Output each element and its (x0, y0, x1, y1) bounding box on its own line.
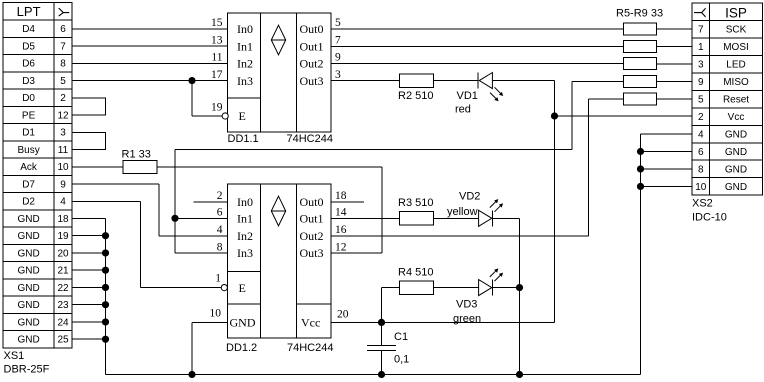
svg-text:0,1: 0,1 (394, 354, 409, 366)
svg-text:9: 9 (60, 179, 66, 190)
connector XS2 header pin symbol (694, 8, 706, 17)
wire R4 to VD3 (434, 287, 479, 289)
svg-text:9: 9 (698, 77, 704, 88)
svg-text:GND: GND (17, 283, 39, 294)
DD1.2 output Out2 pin 16 (300, 224, 347, 243)
svg-text:5: 5 (335, 17, 341, 29)
svg-text:GND: GND (17, 317, 39, 328)
XS1 row D0 pin 2 (22, 93, 66, 104)
DD1.1 output Out1 pin 7 (300, 34, 342, 53)
XS2 row SCK pin 7 (698, 24, 747, 35)
LED VD3 green (479, 268, 503, 295)
DD1.1 driver diamond symbol (271, 25, 285, 55)
XS1 row GND pin 20 (17, 248, 69, 259)
label VD2 (459, 191, 480, 203)
junction D3/E1 node (188, 77, 195, 84)
op-amp buffer DD1.2 74HC244 box (228, 184, 332, 338)
wire bracket D1 to Busy (72, 132, 106, 149)
svg-text:In2: In2 (237, 229, 253, 243)
wire R8 to XS2 (657, 81, 692, 83)
svg-text:10: 10 (695, 182, 707, 193)
ground bus from XS1 GND pins (72, 218, 106, 374)
junction Vcc/C1/R4 node (378, 319, 385, 326)
svg-text:VD3: VD3 (456, 299, 477, 311)
wire D6 to DD1.1 In2 (72, 62, 228, 64)
wire DD1.2 Out1 to R3 (331, 217, 400, 219)
svg-text:4: 4 (60, 197, 66, 208)
svg-text:7: 7 (335, 34, 341, 46)
wire VD1 to Vcc node (492, 81, 554, 116)
label VD3 (456, 299, 477, 311)
wire D4 to DD1.1 In0 (72, 28, 228, 30)
svg-text:10: 10 (210, 308, 222, 320)
svg-text:22: 22 (57, 283, 69, 294)
svg-text:3: 3 (60, 128, 66, 139)
svg-text:R1 33: R1 33 (122, 149, 151, 161)
label C1 (394, 331, 408, 343)
label 0,1 (394, 354, 409, 366)
label yellow (447, 206, 478, 218)
XS1 row GND pin 22 (17, 283, 69, 294)
resistor R8 (623, 76, 656, 88)
label R2 510 (398, 90, 433, 102)
DD1.1 input In3 pin 17 (211, 69, 253, 88)
junction MISO/In1 node (171, 215, 178, 222)
wire R2 to VD1 (434, 80, 479, 82)
svg-text:GND: GND (17, 231, 39, 242)
svg-text:XS2: XS2 (692, 198, 713, 210)
svg-text:Out1: Out1 (300, 212, 324, 226)
wire R9 to XS2 (657, 98, 692, 100)
wire R7 to XS2 (657, 63, 692, 65)
svg-text:SCK: SCK (726, 24, 747, 35)
svg-text:R2 510: R2 510 (398, 90, 433, 102)
wire VD3 to cathode bus (492, 287, 519, 289)
junction XS2 GND pin 10 node (637, 183, 644, 190)
svg-text:DD1.2: DD1.2 (226, 342, 257, 354)
DD1.2 input In2 pin 4 (217, 224, 253, 243)
svg-text:Ack: Ack (20, 162, 38, 173)
DD1.2 enable E pin 1 with inverter bubble (215, 273, 246, 295)
XS2 row GND pin 8 (698, 164, 747, 175)
label 74HC244 upper (287, 133, 333, 145)
wire R1 to DD1.2 Out3 (157, 167, 382, 253)
svg-text:C1: C1 (394, 331, 408, 343)
svg-text:7: 7 (60, 41, 66, 52)
svg-text:6: 6 (60, 24, 66, 35)
svg-text:3: 3 (335, 69, 341, 81)
svg-text:5: 5 (698, 94, 704, 105)
svg-text:GND: GND (17, 266, 39, 277)
wire DD1.1 Out1 to R6 MOSI (331, 45, 623, 47)
svg-text:In1: In1 (237, 212, 253, 226)
DD1.2 input In3 pin 8 (217, 241, 253, 260)
svg-text:D4: D4 (22, 24, 35, 35)
svg-text:17: 17 (211, 69, 223, 81)
XS2 row GND pin 6 (698, 147, 747, 158)
wire R3 to VD2 (434, 217, 479, 219)
svg-text:2: 2 (698, 112, 704, 123)
wire Ack to R1 (72, 166, 123, 168)
svg-text:1: 1 (215, 273, 221, 285)
svg-text:25: 25 (57, 335, 69, 346)
svg-text:16: 16 (335, 224, 347, 236)
svg-text:Reset: Reset (723, 94, 749, 105)
resistor R6 (623, 40, 656, 52)
DD1.2 input In0 pin 2 (217, 190, 253, 209)
svg-text:15: 15 (211, 17, 223, 29)
wires ground bus to XS2 GND pins (641, 134, 693, 186)
svg-text:LED: LED (726, 59, 745, 70)
XS1 row D3 pin 5 (22, 76, 66, 87)
svg-text:D3: D3 (22, 76, 35, 87)
svg-text:13: 13 (211, 34, 223, 46)
XS1 row GND pin 23 (17, 300, 69, 311)
junction GND pin 19 node (102, 232, 109, 239)
svg-text:3: 3 (698, 59, 704, 70)
junction XS2 GND pin 8 node (637, 165, 644, 172)
svg-text:8: 8 (60, 59, 66, 70)
svg-text:19: 19 (211, 102, 223, 114)
junction GND pin 25 node (102, 336, 109, 343)
label DBR-25F (4, 364, 50, 376)
DD1.2 output Out3 pin 12 (300, 241, 347, 260)
connector XS2 header label ISP (725, 5, 747, 20)
label R4 510 (398, 267, 433, 279)
junction GND pin 21 node (102, 267, 109, 274)
DD1.1 output Out3 pin 3 (300, 69, 342, 88)
svg-text:Out0: Out0 (300, 22, 324, 36)
svg-text:LPT: LPT (17, 4, 41, 19)
svg-text:20: 20 (337, 309, 349, 321)
wire R9 to DD1.2 Out2 (331, 99, 623, 236)
svg-text:8: 8 (217, 241, 223, 253)
svg-text:20: 20 (57, 248, 69, 259)
svg-text:21: 21 (57, 266, 69, 277)
junction LED cathode / bus node (516, 371, 523, 378)
junction VD1/Vcc node (551, 112, 558, 119)
svg-text:GND: GND (230, 316, 256, 330)
svg-text:E: E (239, 109, 246, 123)
svg-text:8: 8 (698, 164, 704, 175)
label DD1.2 (226, 342, 257, 354)
svg-text:D5: D5 (22, 41, 35, 52)
resistor R2 (400, 74, 434, 88)
svg-text:In3: In3 (237, 246, 253, 260)
DD1.1 input In2 pin 11 (211, 52, 253, 71)
svg-text:11: 11 (58, 145, 69, 156)
wire VD2 to cathode bus (492, 218, 519, 374)
connector XS2 ISP table frame (692, 3, 762, 195)
svg-text:19: 19 (57, 231, 69, 242)
resistor R9 (623, 93, 656, 105)
label R1 33 (122, 149, 151, 161)
XS2 row LED pin 3 (698, 59, 746, 70)
svg-text:R5-R9 33: R5-R9 33 (616, 8, 663, 20)
junction GND pin 24 node (102, 318, 109, 325)
svg-text:10: 10 (57, 162, 69, 173)
svg-text:1: 1 (698, 42, 704, 53)
connector XS1 header label LPT (17, 4, 41, 19)
ground bottom bus wire (106, 134, 641, 374)
svg-text:GND: GND (17, 335, 39, 346)
label DD1.1 (228, 133, 259, 145)
label red (455, 104, 471, 116)
wire MISO from R8 to DD1.2 In1 and In3 (175, 82, 623, 253)
resistor R4 (400, 281, 434, 295)
svg-text:18: 18 (335, 190, 347, 202)
XS1 row D6 pin 8 (22, 59, 66, 70)
svg-text:14: 14 (335, 207, 347, 219)
XS2 row MISO pin 9 (698, 77, 749, 88)
svg-text:ISP: ISP (725, 5, 747, 20)
wire DD1.1 Out2 to R7 LED (331, 63, 623, 65)
svg-text:In3: In3 (237, 74, 253, 88)
wire bracket D0 to PE (72, 98, 106, 115)
label R3 510 (398, 197, 433, 209)
resistor R5 (623, 23, 656, 35)
svg-text:In1: In1 (237, 39, 253, 53)
svg-text:GND: GND (725, 182, 747, 193)
LED VD2 yellow (479, 199, 503, 226)
svg-text:5: 5 (60, 76, 66, 87)
label VD1 (457, 90, 478, 102)
svg-text:4: 4 (217, 224, 223, 236)
junction DD1.2 GND / bus node (188, 371, 195, 378)
svg-text:In2: In2 (237, 57, 253, 71)
svg-text:18: 18 (57, 214, 69, 225)
DD1.2 output Out1 pin 14 (300, 207, 347, 226)
resistor R7 (623, 58, 656, 70)
svg-text:Out1: Out1 (300, 39, 324, 53)
XS1 row D1 pin 3 (22, 128, 66, 139)
svg-text:DD1.1: DD1.1 (228, 133, 259, 145)
DD1.2 output Out0 pin 18 (300, 190, 347, 209)
DD1.2 input In1 pin 6 (217, 207, 253, 226)
wire R6 to XS2 (657, 46, 692, 48)
svg-text:Vcc: Vcc (728, 112, 745, 123)
svg-text:GND: GND (725, 129, 747, 140)
wire DD1.2 Out0 stub (331, 201, 364, 203)
XS2 row GND pin 10 (695, 182, 747, 193)
wire DD1.2 GND pin 10 to bus (192, 322, 228, 374)
wire R5 to XS2 (657, 28, 692, 30)
label R5-R9 33 (616, 8, 663, 20)
svg-text:IDC-10: IDC-10 (692, 212, 727, 224)
wire DD1.1 E pin 19 to D3 node (192, 81, 222, 116)
svg-text:yellow: yellow (447, 206, 478, 218)
junction C1 / bus node (378, 371, 385, 378)
XS1 row D2 pin 4 (22, 197, 66, 208)
XS2 row MOSI pin 1 (698, 42, 749, 53)
XS1 row GND pin 21 (17, 266, 69, 277)
svg-text:D7: D7 (22, 179, 35, 190)
label XS2 (692, 198, 713, 210)
svg-text:11: 11 (211, 52, 222, 64)
resistor R1 (123, 161, 157, 174)
svg-text:Out3: Out3 (300, 246, 324, 260)
svg-text:GND: GND (17, 214, 39, 225)
svg-text:VD1: VD1 (457, 90, 478, 102)
svg-text:MOSI: MOSI (723, 42, 749, 53)
svg-text:24: 24 (57, 317, 69, 328)
svg-text:XS1: XS1 (4, 350, 25, 362)
XS1 row GND pin 25 (17, 335, 69, 346)
XS1 row Ack pin 10 (20, 162, 69, 173)
junction GND pin 23 node (102, 301, 109, 308)
svg-text:4: 4 (698, 129, 704, 140)
svg-text:VD2: VD2 (459, 191, 480, 203)
svg-text:In0: In0 (237, 195, 253, 209)
svg-text:6: 6 (698, 147, 704, 158)
svg-text:2: 2 (60, 93, 66, 104)
svg-text:Out2: Out2 (300, 229, 324, 243)
DD1.1 input In1 pin 13 (211, 34, 253, 53)
wire Vcc node to XS2 Vcc pin 2 (555, 115, 693, 117)
svg-text:D0: D0 (22, 93, 35, 104)
svg-text:23: 23 (57, 300, 69, 311)
svg-text:PE: PE (22, 110, 36, 121)
XS1 row GND pin 19 (17, 231, 69, 242)
wire DD1.1 Out0 to R5 SCK (331, 28, 623, 30)
XS1 row D7 pin 9 (22, 179, 66, 190)
svg-text:D2: D2 (22, 197, 35, 208)
wire D7 to DD1.2 In2 (72, 184, 228, 236)
wire D2 to DD1.2 E pin 1 (72, 201, 221, 287)
svg-text:D6: D6 (22, 59, 35, 70)
wire DD1.1 Out3 to R2 (331, 80, 400, 82)
svg-text:green: green (453, 313, 481, 325)
wire D3 to DD1.1 In3 (72, 80, 228, 82)
XS1 row Busy pin 11 (17, 145, 68, 156)
label green (453, 313, 481, 325)
svg-text:R3 510: R3 510 (398, 197, 433, 209)
svg-text:In0: In0 (237, 22, 253, 36)
svg-text:MISO: MISO (723, 77, 749, 88)
XS2 row Vcc pin 2 (698, 112, 744, 123)
svg-text:Busy: Busy (17, 145, 39, 156)
XS1 row GND pin 24 (17, 317, 69, 328)
connector XS1 LPT table frame (3, 3, 72, 348)
svg-text:D1: D1 (22, 128, 35, 139)
XS2 row GND pin 4 (698, 129, 747, 140)
svg-text:Out3: Out3 (300, 74, 324, 88)
XS1 row D4 pin 6 (22, 24, 66, 35)
svg-text:9: 9 (335, 52, 341, 64)
svg-text:Vcc: Vcc (301, 316, 320, 330)
DD1.2 driver diamond symbol (271, 196, 285, 226)
DD1.1 input In0 pin 15 (211, 17, 253, 36)
svg-text:12: 12 (57, 110, 69, 121)
label IDC-10 (692, 212, 727, 224)
LED VD1 red (478, 73, 503, 102)
svg-text:red: red (455, 104, 471, 116)
svg-text:Out0: Out0 (300, 195, 324, 209)
svg-text:GND: GND (17, 248, 39, 259)
XS1 row D5 pin 7 (22, 41, 66, 52)
svg-text:DBR-25F: DBR-25F (4, 364, 50, 376)
junction GND pin 22 node (102, 284, 109, 291)
DD1.1 enable E pin 19 with inverter bubble (211, 102, 246, 124)
wire Vcc node down to DD1.2 Vcc pin 20 (331, 116, 555, 322)
wire DD1.2 In0 stub (194, 201, 228, 203)
resistor R3 (400, 212, 434, 226)
svg-text:7: 7 (698, 24, 704, 35)
DD1.1 output Out0 pin 5 (300, 17, 342, 36)
svg-text:GND: GND (725, 147, 747, 158)
label XS1 (4, 350, 25, 362)
connector XS1 header pin symbol (59, 8, 69, 16)
junction GND pin 20 node (102, 249, 109, 256)
svg-text:GND: GND (17, 300, 39, 311)
svg-text:12: 12 (335, 241, 347, 253)
svg-text:2: 2 (217, 190, 223, 202)
label 74HC244 lower (287, 342, 333, 354)
DD1.1 output Out2 pin 9 (300, 52, 342, 71)
op-amp buffer DD1.1 74HC244 box (228, 13, 332, 132)
svg-text:E: E (239, 281, 246, 295)
junction XS2 GND pin 6 node (637, 148, 644, 155)
XS2 row Reset pin 5 (698, 94, 749, 105)
DD1.2 Vcc pin 20 (301, 309, 349, 330)
XS1 row GND pin 18 (17, 214, 69, 225)
svg-text:74HC244: 74HC244 (287, 342, 333, 354)
wire D5 to DD1.1 In1 (72, 45, 228, 47)
wire Vcc node to R4 (382, 288, 400, 323)
DD1.2 GND pin 10 (210, 308, 256, 330)
junction VD3/VD2 cathode node (516, 284, 523, 291)
XS1 row PE pin 12 (22, 110, 69, 121)
svg-text:Out2: Out2 (300, 57, 324, 71)
capacitor C1 (367, 322, 396, 374)
svg-text:GND: GND (725, 164, 747, 175)
svg-text:R4 510: R4 510 (398, 267, 433, 279)
svg-text:6: 6 (217, 207, 223, 219)
svg-text:74HC244: 74HC244 (287, 133, 333, 145)
